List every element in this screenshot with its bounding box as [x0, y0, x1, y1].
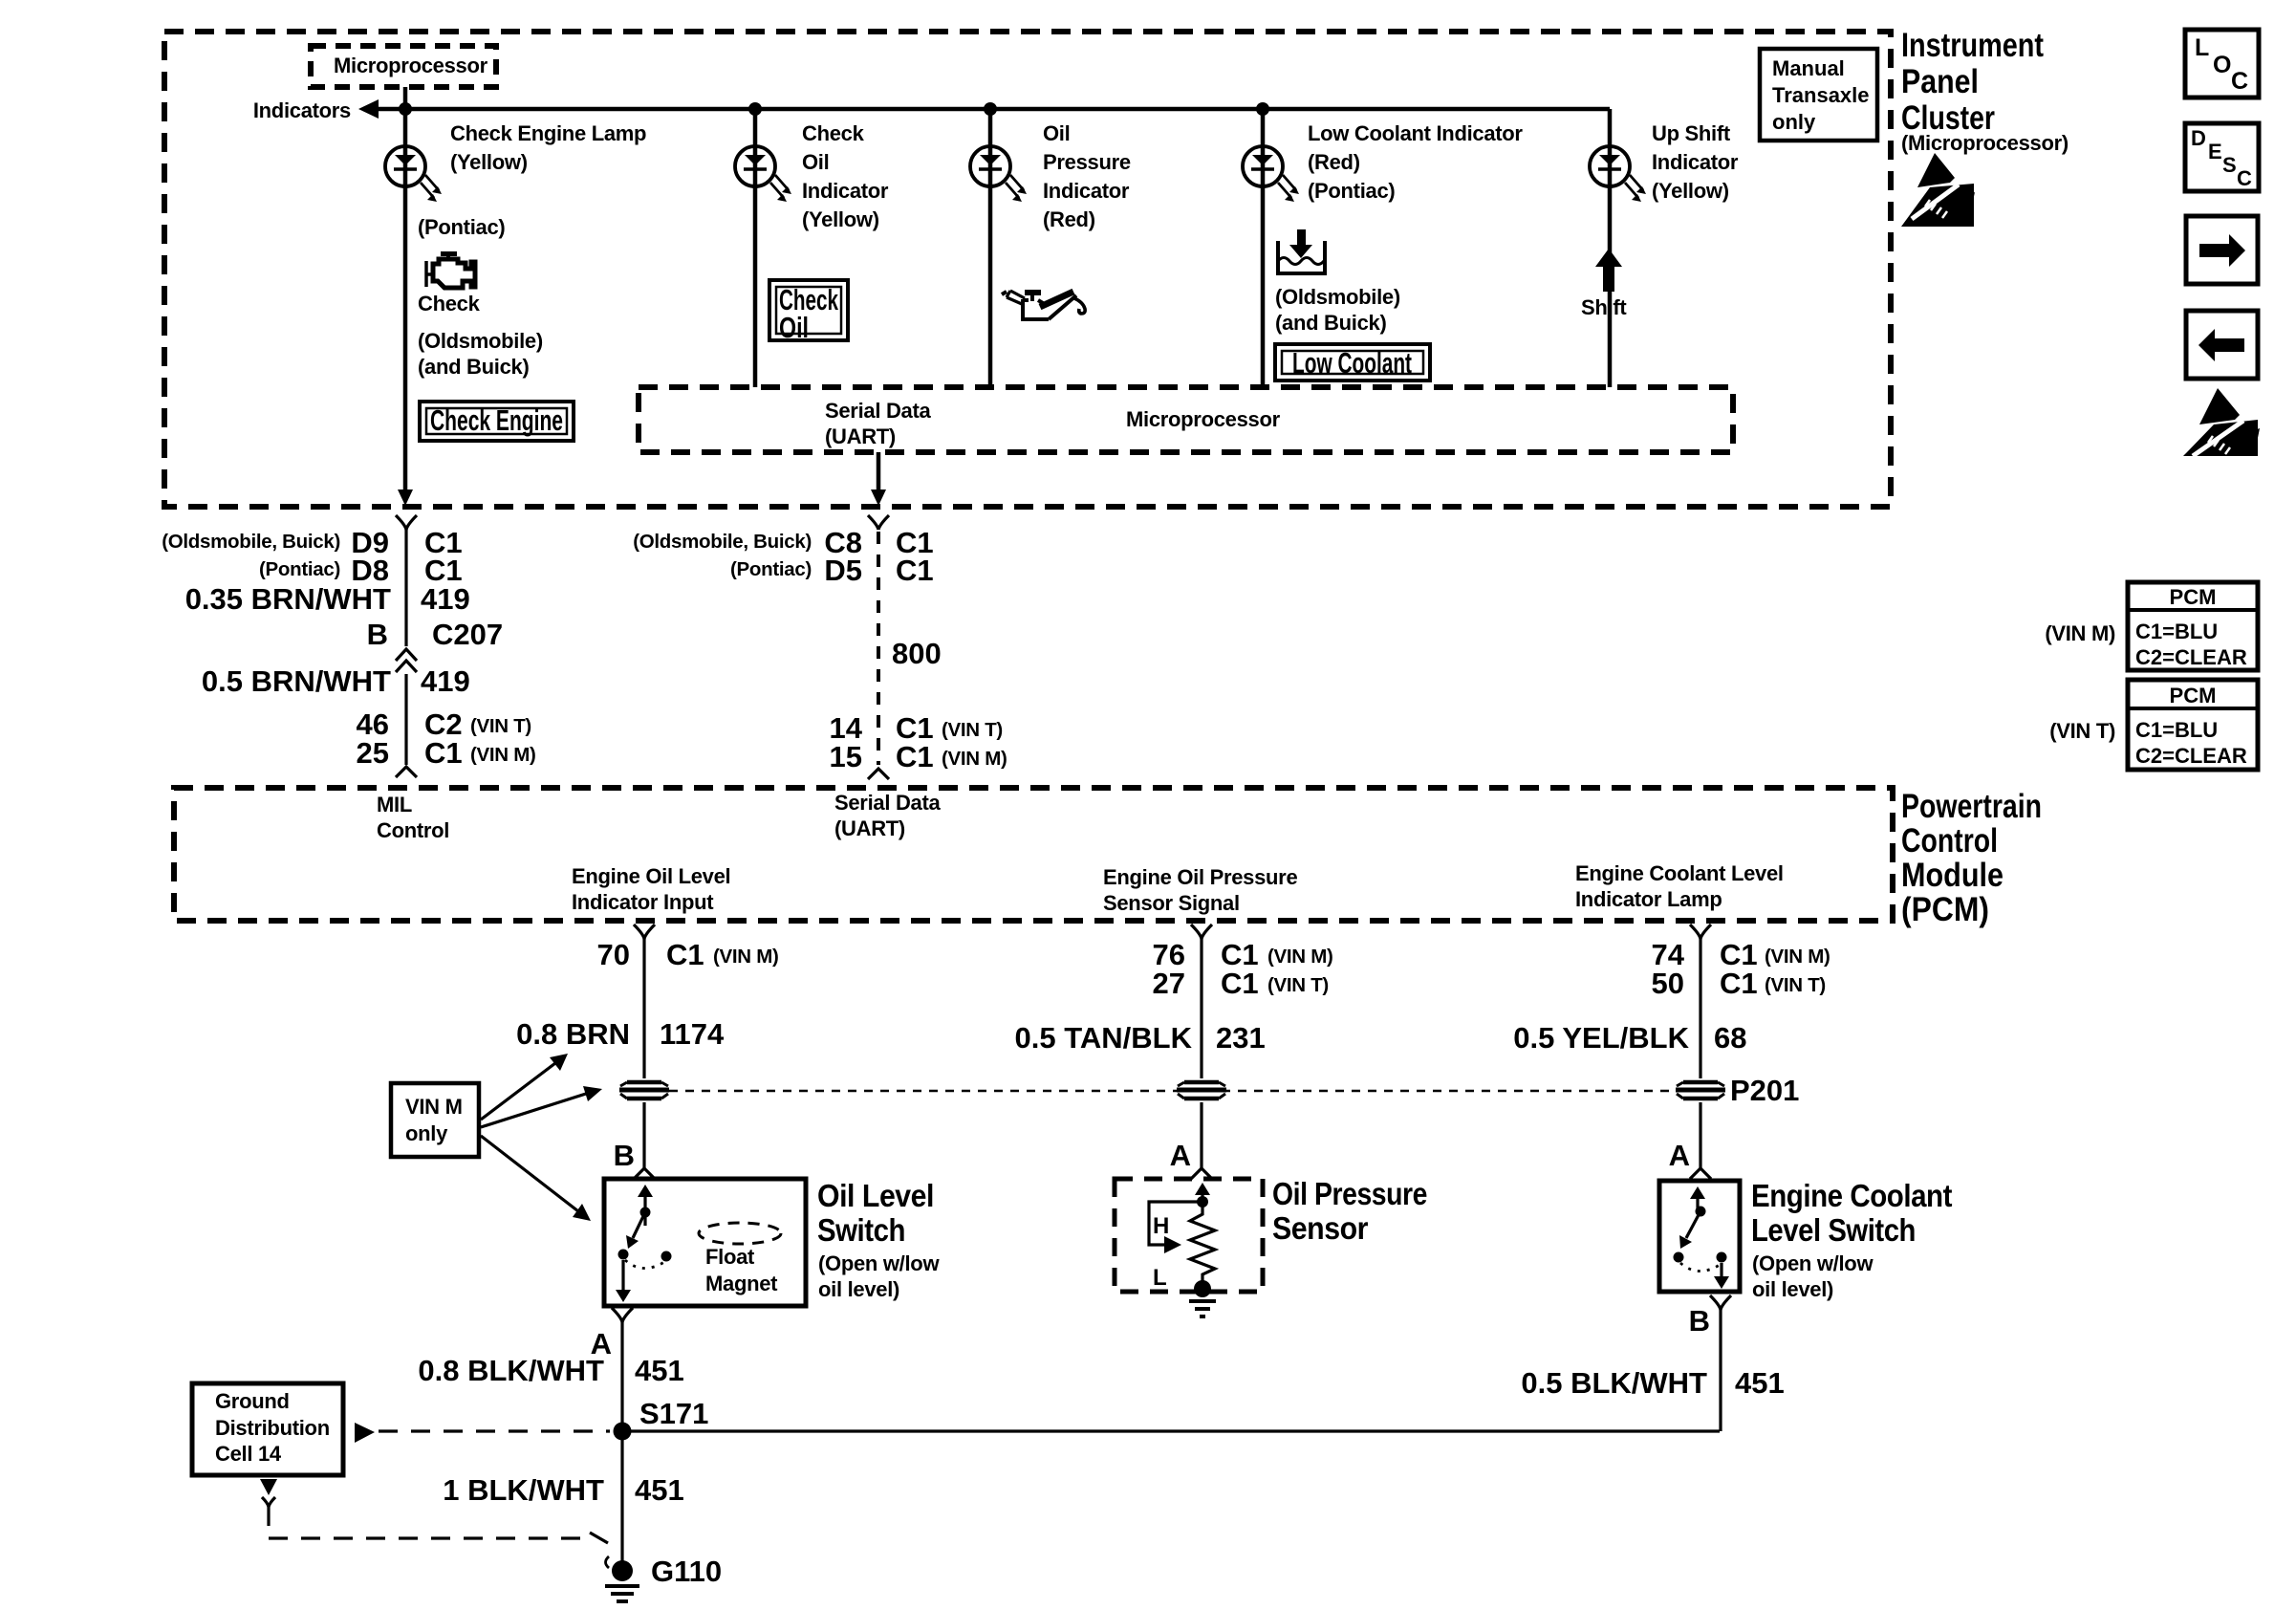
net label Engine Oil Pressure Sensor Signal: [1103, 865, 1297, 915]
svg-text:(and Buick): (and Buick): [1275, 311, 1387, 335]
svg-text:A: A: [1170, 1139, 1191, 1172]
wire label 0.8 BLK/WHT 451: [418, 1354, 683, 1387]
splice S171: [614, 1397, 709, 1441]
svg-text:C1: C1: [666, 938, 704, 971]
ground distribution cell 14 box: [192, 1383, 343, 1475]
svg-text:Control: Control: [377, 818, 449, 842]
svg-text:H: H: [1153, 1213, 1169, 1239]
svg-text:(VIN M): (VIN M): [942, 748, 1007, 770]
svg-text:Control: Control: [1901, 822, 1998, 859]
svg-text:Shift: Shift: [1581, 295, 1627, 319]
lamp: check engine (LED): [385, 121, 646, 202]
svg-text:Oil Pressure: Oil Pressure: [1272, 1176, 1427, 1211]
margin icon: right arrow box: [2186, 216, 2258, 284]
wire label 0.8 BRN 1174: [516, 1017, 725, 1051]
oil level switch: [604, 1179, 806, 1306]
svg-text:Level Switch: Level Switch: [1751, 1212, 1916, 1248]
svg-text:Sensor Signal: Sensor Signal: [1103, 891, 1240, 915]
svg-text:Switch: Switch: [817, 1212, 905, 1248]
svg-text:1174: 1174: [660, 1017, 725, 1051]
svg-text:Distribution: Distribution: [215, 1416, 330, 1440]
svg-text:(Pontiac): (Pontiac): [259, 558, 340, 580]
svg-text:D: D: [2191, 126, 2206, 150]
svg-text:(UART): (UART): [834, 816, 905, 840]
svg-text:(VIN T): (VIN T): [1765, 974, 1826, 996]
svg-text:C2=CLEAR: C2=CLEAR: [2135, 645, 2247, 669]
indicators bus wire: [253, 98, 1610, 122]
svg-text:Module: Module: [1901, 857, 2004, 894]
engine coolant level switch: [1659, 1181, 1740, 1292]
cluster display box: Check Oil: [769, 280, 848, 344]
oil pressure sensor name label: [1272, 1176, 1427, 1246]
svg-text:0.35 BRN/WHT: 0.35 BRN/WHT: [185, 582, 391, 616]
net label Engine Coolant Level Indicator Lamp: [1575, 861, 1784, 911]
node: low coolant branch junction: [1256, 102, 1269, 116]
svg-text:(Oldsmobile): (Oldsmobile): [1275, 285, 1400, 309]
svg-text:(Yellow): (Yellow): [450, 150, 528, 174]
svg-text:Microprocessor: Microprocessor: [1126, 407, 1281, 431]
svg-text:Oil: Oil: [779, 311, 809, 344]
svg-text:Up Shift: Up Shift: [1652, 121, 1731, 145]
wire label 0.5 BRN/WHT 419: [202, 664, 470, 765]
svg-text:C1=BLU: C1=BLU: [2135, 718, 2218, 742]
svg-text:C: C: [2231, 68, 2248, 95]
inline connector (oil pressure wire): [1177, 1078, 1226, 1102]
wire: oil level switch to S171 to G110: [620, 1322, 623, 1571]
ground G110: [605, 1555, 722, 1601]
svg-text:(VIN M): (VIN M): [1765, 946, 1830, 968]
svg-text:Indicator: Indicator: [1043, 179, 1130, 203]
ESD symbol (cluster): [1901, 153, 1975, 227]
connector C1 at cluster (serial data): [633, 515, 933, 587]
wire: oil pressure branch: [988, 109, 993, 387]
svg-text:Transaxle: Transaxle: [1772, 83, 1870, 107]
wire: S171 to coolant switch (451): [622, 1429, 1720, 1432]
svg-text:(Microprocessor): (Microprocessor): [1901, 131, 2069, 155]
svg-text:oil level): oil level): [818, 1277, 899, 1301]
svg-text:PCM: PCM: [2170, 585, 2217, 609]
wire label 0.35 BRN/WHT 419: [185, 582, 470, 616]
svg-text:Oil: Oil: [1043, 121, 1070, 145]
svg-text:Serial Data: Serial Data: [825, 399, 931, 423]
coolant level switch name label: [1751, 1178, 1952, 1301]
svg-text:(Red): (Red): [1043, 207, 1095, 231]
svg-text:VIN M: VIN M: [405, 1095, 463, 1119]
svg-text:(VIN M): (VIN M): [2045, 621, 2115, 645]
node: check oil branch junction: [748, 102, 762, 116]
svg-text:68: 68: [1714, 1021, 1746, 1055]
svg-text:0.8 BRN: 0.8 BRN: [516, 1017, 630, 1051]
connector pins 74/50 C1 (coolant level): [1652, 925, 1830, 1079]
svg-text:(VIN T): (VIN T): [470, 715, 531, 737]
svg-text:P201: P201: [1730, 1074, 1799, 1107]
svg-text:15: 15: [830, 740, 862, 773]
svg-text:(VIN T): (VIN T): [1267, 974, 1329, 996]
cluster display box: Check Engine: [420, 402, 574, 441]
svg-text:C1: C1: [896, 554, 934, 587]
svg-text:Magnet: Magnet: [705, 1272, 778, 1295]
svg-text:O: O: [2213, 52, 2231, 78]
svg-text:Low Coolant: Low Coolant: [1292, 346, 1412, 380]
dashed reference: ground distribution to S171: [355, 1423, 610, 1443]
svg-text:Indicator Input: Indicator Input: [572, 890, 714, 914]
svg-text:Check Engine Lamp: Check Engine Lamp: [450, 121, 646, 145]
wire label 0.5 BLK/WHT 451: [1521, 1366, 1784, 1400]
microprocessor box (cluster): [311, 46, 496, 87]
connector pins 76/27 C1 (oil pressure): [1153, 925, 1333, 1079]
svg-text:Panel: Panel: [1901, 63, 1979, 100]
svg-text:D5: D5: [824, 554, 862, 587]
svg-text:Instrument: Instrument: [1901, 27, 2044, 64]
wire: up shift branch: [1608, 109, 1613, 387]
svg-text:Oil Level: Oil Level: [817, 1178, 934, 1213]
svg-text:(Pontiac): (Pontiac): [1308, 179, 1395, 203]
connector chevron below coolant level switch: [1710, 1295, 1731, 1310]
svg-text:Engine Coolant Level: Engine Coolant Level: [1575, 861, 1784, 885]
svg-text:Powertrain: Powertrain: [1901, 788, 2042, 825]
wire label 1 BLK/WHT 451: [443, 1473, 684, 1507]
svg-text:451: 451: [635, 1354, 684, 1387]
svg-text:Check: Check: [802, 121, 865, 145]
svg-text:25: 25: [357, 736, 389, 770]
connector chevron at oil level switch: [634, 1168, 655, 1179]
icon: oil can: [1002, 290, 1085, 319]
svg-text:451: 451: [635, 1473, 684, 1507]
lamp: up shift indicator (LED): [1590, 121, 1739, 203]
connector pins 46/25 at PCM: [357, 707, 536, 777]
svg-text:0.5 BRN/WHT: 0.5 BRN/WHT: [202, 664, 391, 698]
node: check engine branch junction: [399, 102, 412, 116]
wire: check engine lamp branch: [398, 109, 413, 506]
wire: coolant level switch pin A lead: [1699, 1102, 1701, 1168]
svg-text:Check Engine: Check Engine: [430, 403, 563, 437]
svg-text:(and Buick): (and Buick): [418, 355, 530, 379]
wire label 0.5 YEL/BLK 68: [1513, 1021, 1746, 1055]
svg-text:G110: G110: [651, 1555, 722, 1588]
svg-text:(Yellow): (Yellow): [1652, 179, 1729, 203]
svg-text:419: 419: [421, 582, 470, 616]
svg-text:MIL: MIL: [377, 793, 412, 816]
inline connector (oil level wire): [619, 1078, 669, 1102]
svg-text:Cell 14: Cell 14: [215, 1442, 282, 1466]
svg-text:50: 50: [1652, 967, 1684, 1000]
svg-text:only: only: [1772, 110, 1816, 134]
svg-text:(VIN M): (VIN M): [713, 946, 779, 968]
svg-text:Indicator: Indicator: [802, 179, 889, 203]
svg-text:0.5 BLK/WHT: 0.5 BLK/WHT: [1521, 1366, 1707, 1400]
svg-text:(VIN T): (VIN T): [942, 719, 1003, 741]
svg-text:Sensor: Sensor: [1272, 1210, 1369, 1246]
dashed harness link line (VIN M only): [669, 1090, 1673, 1093]
svg-text:(Open w/low: (Open w/low: [818, 1251, 940, 1275]
powertrain control module box: [174, 788, 2042, 928]
wire 800 (serial data, dashed): [878, 532, 942, 765]
connector chevron at coolant level switch: [1690, 1168, 1711, 1179]
svg-text:B: B: [367, 618, 388, 651]
icon: check engine pictogram: [426, 251, 475, 288]
svg-text:Low Coolant Indicator: Low Coolant Indicator: [1308, 121, 1523, 145]
svg-text:L: L: [2195, 34, 2209, 61]
margin icon: left arrow box: [2186, 311, 2258, 379]
VIN M only box with arrows: [391, 1054, 602, 1221]
svg-text:Indicator Lamp: Indicator Lamp: [1575, 887, 1722, 911]
svg-text:C1: C1: [1221, 967, 1259, 1000]
wire label 0.5 TAN/BLK 231: [1015, 1021, 1266, 1055]
svg-text:231: 231: [1216, 1021, 1266, 1055]
svg-text:(Yellow): (Yellow): [802, 207, 879, 231]
wire: oil level switch pin B lead: [642, 1102, 645, 1168]
svg-text:(VIN M): (VIN M): [470, 744, 536, 766]
connector chevron at oil pressure sensor: [1191, 1168, 1212, 1179]
wire: coolant switch B down to S171 line: [1719, 1310, 1722, 1431]
inline connector P201 (coolant wire): [1676, 1074, 1799, 1107]
margin icon: DESC box: [2185, 123, 2259, 191]
connector chevron below oil level switch: [612, 1308, 633, 1322]
svg-text:(PCM): (PCM): [1901, 891, 1989, 928]
svg-text:Engine Oil Level: Engine Oil Level: [572, 864, 730, 888]
svg-text:A: A: [1669, 1139, 1690, 1172]
svg-text:(Oldsmobile): (Oldsmobile): [418, 329, 543, 353]
svg-text:(Pontiac): (Pontiac): [418, 215, 505, 239]
svg-text:Microprocessor: Microprocessor: [334, 54, 488, 77]
svg-text:(Pontiac): (Pontiac): [730, 558, 812, 580]
wire: serial data output arrow: [871, 452, 886, 506]
net label Engine Oil Level Indicator Input: [572, 864, 730, 914]
svg-text:C1=BLU: C1=BLU: [2135, 620, 2218, 643]
margin icon: LOC box: [2185, 30, 2259, 98]
PCM connector legend box (VIN M): [2045, 582, 2258, 670]
svg-text:PCM: PCM: [2170, 684, 2217, 707]
connector C207: [367, 618, 504, 672]
margin icon: ESD symbol: [2183, 388, 2260, 456]
svg-text:C2=CLEAR: C2=CLEAR: [2135, 744, 2247, 768]
svg-text:(Oldsmobile, Buick): (Oldsmobile, Buick): [162, 531, 340, 553]
svg-text:only: only: [405, 1121, 448, 1145]
svg-text:Ground: Ground: [215, 1389, 290, 1413]
svg-text:Oil: Oil: [802, 150, 829, 174]
lamp: low coolant indicator (LED): [1243, 121, 1523, 203]
svg-text:S: S: [2222, 153, 2237, 177]
oil pressure sensor: [1115, 1179, 1263, 1316]
icon: low coolant symbol: [1278, 229, 1325, 273]
manual transaxle only box: [1760, 49, 1877, 141]
svg-text:27: 27: [1153, 967, 1185, 1000]
svg-text:(UART): (UART): [825, 424, 896, 448]
svg-text:Engine Oil Pressure: Engine Oil Pressure: [1103, 865, 1297, 889]
lamp: check oil indicator (LED): [735, 121, 889, 231]
net label Serial Data (UART) PCM: [834, 791, 941, 840]
svg-text:Float: Float: [705, 1245, 755, 1269]
oil level switch name label: [817, 1178, 940, 1301]
wire: low coolant branch: [1261, 109, 1266, 387]
icon: up shift arrow: [1595, 249, 1622, 292]
cluster display box: Low Coolant: [1275, 344, 1430, 381]
svg-text:B: B: [614, 1139, 635, 1172]
svg-text:0.5 YEL/BLK: 0.5 YEL/BLK: [1513, 1021, 1689, 1055]
svg-text:oil level): oil level): [1752, 1277, 1833, 1301]
connector pin 70 C1 (oil level): [597, 925, 779, 1079]
net label MIL Control: [377, 793, 449, 842]
svg-text:C1: C1: [896, 740, 934, 773]
svg-text:(VIN M): (VIN M): [1267, 946, 1333, 968]
svg-text:70: 70: [597, 938, 630, 971]
svg-text:Indicator: Indicator: [1652, 150, 1739, 174]
svg-text:Pressure: Pressure: [1043, 150, 1131, 174]
wire: check oil branch: [753, 109, 758, 387]
svg-text:C207: C207: [432, 618, 503, 651]
svg-text:C1: C1: [1720, 967, 1758, 1000]
svg-text:1 BLK/WHT: 1 BLK/WHT: [443, 1473, 604, 1507]
svg-text:(Oldsmobile, Buick): (Oldsmobile, Buick): [633, 531, 812, 553]
svg-text:(VIN T): (VIN T): [2049, 719, 2115, 743]
svg-text:S171: S171: [639, 1397, 708, 1430]
svg-text:451: 451: [1735, 1366, 1785, 1400]
svg-text:Engine Coolant: Engine Coolant: [1751, 1178, 1952, 1213]
svg-text:800: 800: [892, 637, 942, 670]
svg-text:(Red): (Red): [1308, 150, 1360, 174]
instrument panel cluster module box: [164, 27, 2069, 507]
dashed reference: ground distribution to G110: [260, 1479, 608, 1543]
microprocessor box (serial data): [639, 387, 1733, 452]
lamp: oil pressure indicator (LED): [970, 121, 1131, 231]
svg-text:C: C: [2237, 166, 2252, 190]
PCM connector legend box (VIN T): [2049, 680, 2258, 770]
svg-text:C1: C1: [424, 736, 463, 770]
wire: oil pressure sensor pin A lead: [1200, 1102, 1202, 1168]
svg-text:0.5 TAN/BLK: 0.5 TAN/BLK: [1015, 1021, 1193, 1055]
connector pins 14/15 at PCM: [830, 711, 1007, 779]
svg-text:(Open w/low: (Open w/low: [1752, 1251, 1874, 1275]
wire from microprocessor to indicators bus: [403, 87, 408, 109]
svg-text:419: 419: [421, 664, 470, 698]
svg-text:B: B: [1689, 1304, 1710, 1338]
svg-text:Check: Check: [418, 292, 481, 315]
node: oil pressure branch junction: [984, 102, 997, 116]
svg-text:Manual: Manual: [1772, 56, 1845, 80]
svg-text:Indicators: Indicators: [253, 98, 351, 122]
connector C1 at cluster (MIL wire): [162, 515, 462, 646]
svg-text:0.8 BLK/WHT: 0.8 BLK/WHT: [418, 1354, 604, 1387]
svg-text:Serial Data: Serial Data: [834, 791, 941, 815]
svg-text:E: E: [2208, 140, 2222, 163]
svg-text:L: L: [1153, 1265, 1167, 1291]
